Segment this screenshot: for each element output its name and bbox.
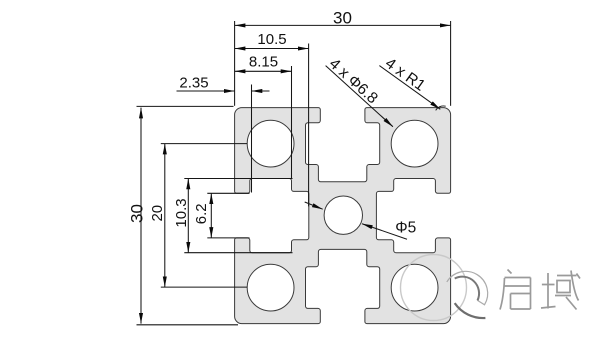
ext line 10.3 top [184, 178, 292, 180]
char yu strokes [541, 271, 580, 310]
svg-text:4 x Φ6.8: 4 x Φ6.8 [326, 55, 381, 107]
ext line right of top dim 30 [450, 21, 452, 106]
dim line 8.15 [235, 70, 292, 72]
char qi strokes [500, 278, 531, 310]
center hole [324, 196, 362, 234]
R1 tick arc [436, 106, 446, 110]
ext line 6.2 top [207, 192, 249, 194]
ext line 2.35 right [251, 85, 253, 193]
ext line 30-left bottom [137, 324, 239, 326]
ext line 10.5 [308, 44, 310, 207]
dim line 10.3 [187, 179, 189, 253]
svg-text:Φ5: Φ5 [395, 220, 416, 237]
dim line 30 left [140, 108, 142, 324]
dim 2.35 right leader [252, 90, 270, 92]
leader Phi5 right [362, 224, 407, 240]
leader Phi5 left [305, 202, 323, 209]
logo swoosh inner arc [455, 277, 479, 301]
svg-text:6.2: 6.2 [193, 203, 210, 224]
hole top-right corner [391, 120, 438, 167]
hole bottom-right corner [391, 264, 438, 311]
hole top-left corner [247, 120, 294, 167]
dim 2.35 left leader [177, 90, 235, 92]
svg-text:4 x R1: 4 x R1 [382, 55, 428, 95]
svg-text:8.15: 8.15 [249, 54, 278, 71]
hole bottom-left corner [247, 264, 294, 311]
dim line 10.5 [235, 48, 309, 50]
ext line 20 bottom [161, 286, 247, 288]
ext line 30-left top [137, 105, 234, 107]
dim line 6.2 [210, 193, 212, 238]
logo swoosh outer arc [447, 271, 488, 304]
dim line 20 [164, 144, 166, 288]
ext line 20 top [161, 143, 247, 145]
dim line 30 top [235, 24, 451, 26]
ext line 8.15 [291, 66, 293, 178]
leader 4xR1 [379, 66, 440, 110]
svg-text:20: 20 [149, 205, 166, 222]
ext line 10.3 bottom [184, 252, 292, 254]
svg-text:30: 30 [333, 8, 352, 27]
ext line left of top dims [234, 21, 236, 106]
ext line 6.2 bottom [207, 237, 249, 239]
leader 4xPhi6.8 [326, 66, 393, 127]
svg-text:10.3: 10.3 [173, 198, 190, 227]
svg-text:10.5: 10.5 [257, 31, 286, 48]
logo bottom stroke [455, 303, 486, 318]
svg-text:30: 30 [128, 204, 147, 223]
watermark logo [401, 255, 581, 321]
profile body 30x30 extrusion cross-section [235, 108, 451, 324]
svg-text:2.35: 2.35 [179, 74, 208, 91]
char qi dot [508, 270, 512, 274]
logo big circle [401, 255, 467, 321]
